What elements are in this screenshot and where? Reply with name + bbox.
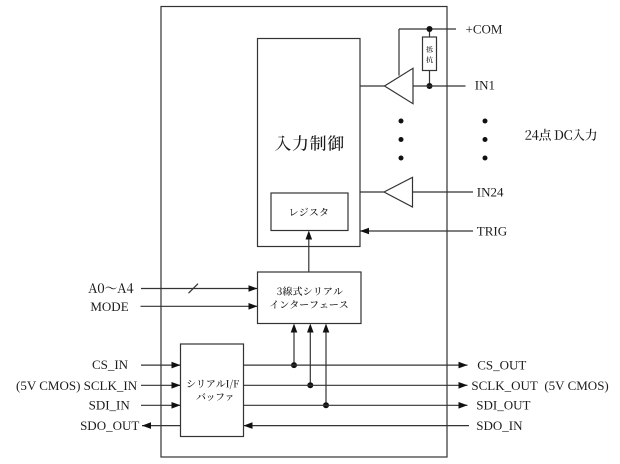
svg-text:SDI_IN: SDI_IN <box>89 398 131 413</box>
svg-text:CS_IN: CS_IN <box>92 357 129 372</box>
svg-text:MODE: MODE <box>90 299 128 314</box>
svg-text:CS_OUT: CS_OUT <box>477 358 526 373</box>
svg-text:SDO_IN: SDO_IN <box>476 418 523 433</box>
svg-text:IN24: IN24 <box>477 184 504 199</box>
svg-text:IN1: IN1 <box>475 77 495 92</box>
svg-text:SCLK_OUT (5V CMOS): SCLK_OUT (5V CMOS) <box>471 378 608 393</box>
svg-text:SDI_OUT: SDI_OUT <box>476 398 530 413</box>
svg-text:+COM: +COM <box>466 21 503 36</box>
svg-text:(5V CMOS) SCLK_IN: (5V CMOS) SCLK_IN <box>16 378 138 393</box>
svg-text:SDO_OUT: SDO_OUT <box>80 418 139 433</box>
svg-text:TRIG: TRIG <box>477 224 507 239</box>
